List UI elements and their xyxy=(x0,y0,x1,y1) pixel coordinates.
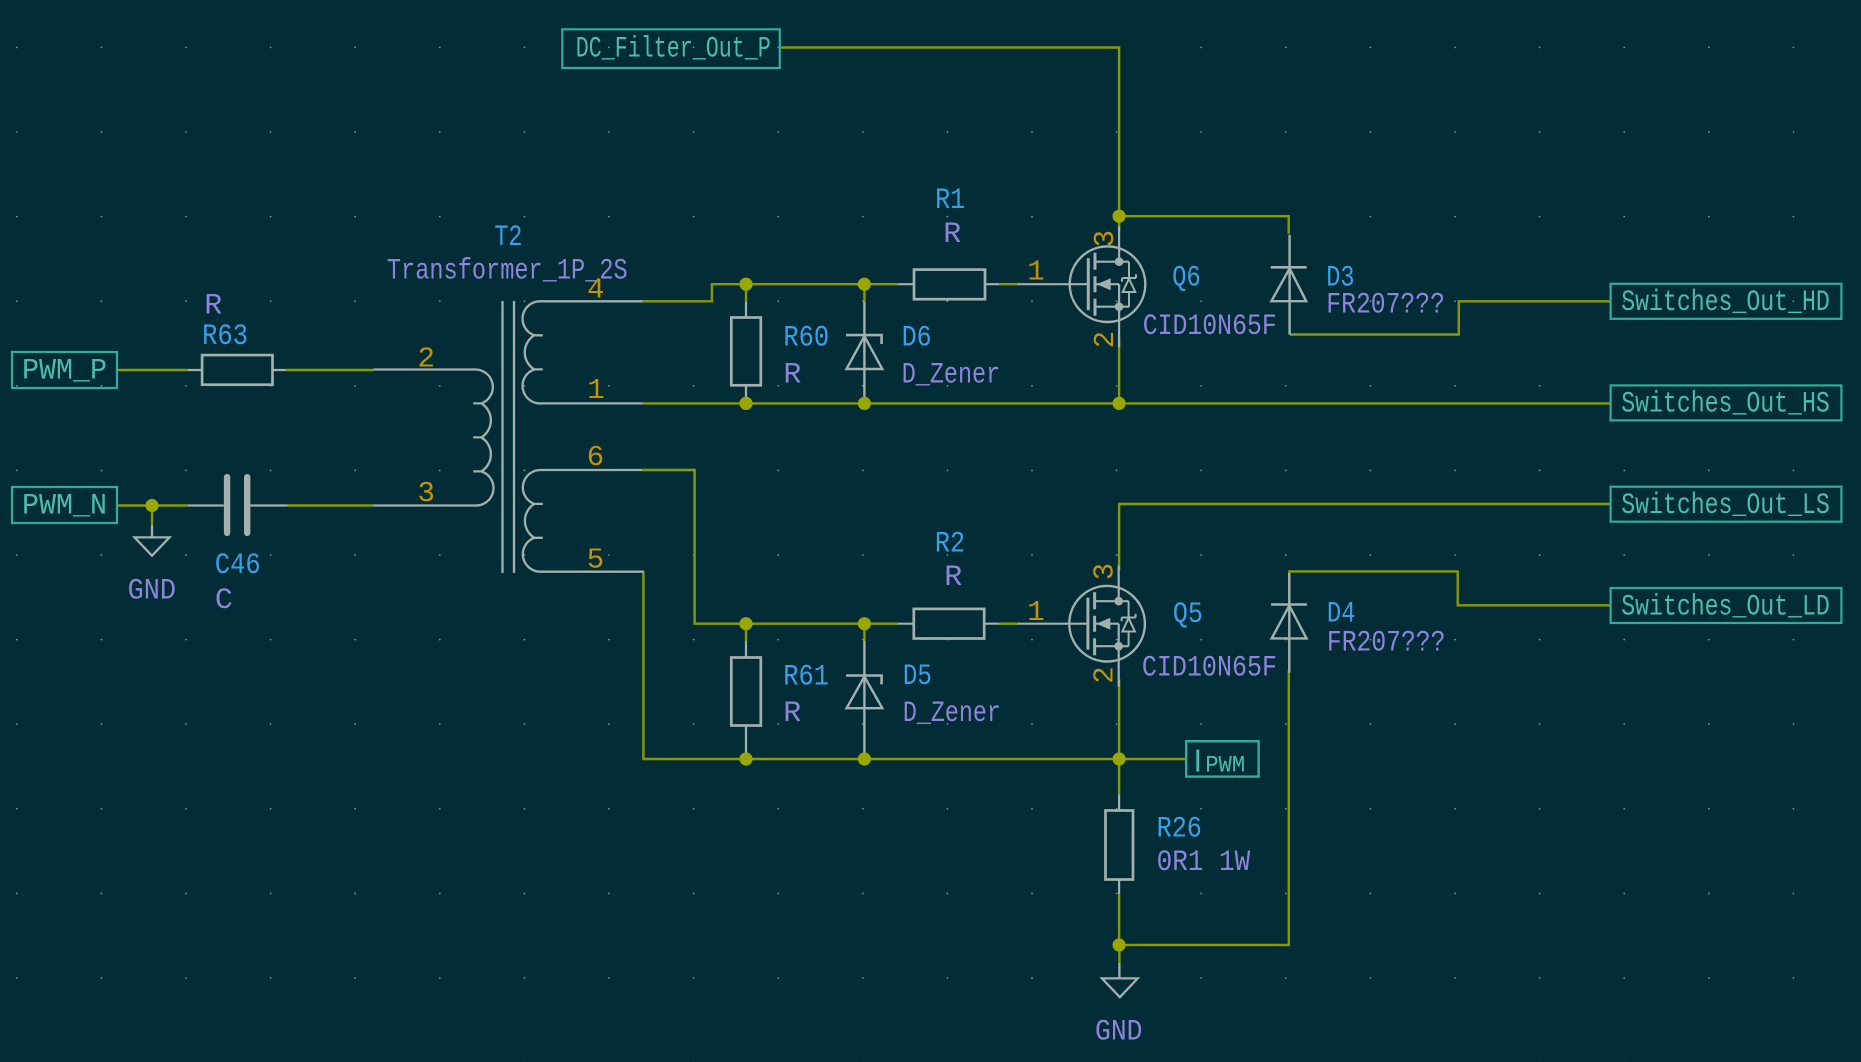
wire Q5 drain to Switches_Out_LS xyxy=(1119,504,1611,570)
svg-text:R61: R61 xyxy=(783,661,829,695)
global label IPWM xyxy=(1186,741,1258,778)
T2 pin 4 number xyxy=(587,274,604,307)
wire T2 pin4 to top node row xyxy=(643,284,898,301)
wire PWM_P to R63 xyxy=(117,369,188,371)
wire GND stub left xyxy=(151,506,153,525)
diode D3 xyxy=(1271,235,1307,335)
svg-text:FR207???: FR207??? xyxy=(1327,626,1446,660)
wire GND stub bottom xyxy=(1118,945,1120,963)
wire T2 pin5 to bottom row and IPWM xyxy=(643,572,1186,759)
Q5 pin 3 number xyxy=(1088,563,1121,580)
svg-text:T2: T2 xyxy=(494,221,522,255)
junction GND node xyxy=(1113,938,1126,951)
svg-text:2: 2 xyxy=(1088,666,1121,683)
svg-text:2: 2 xyxy=(1089,331,1122,348)
junction R60 top xyxy=(739,278,752,291)
GND bottom text xyxy=(1095,1015,1143,1049)
svg-text:R: R xyxy=(204,290,222,324)
junction D5 top xyxy=(858,617,871,630)
svg-text:D6: D6 xyxy=(902,321,932,355)
resistor R60 xyxy=(731,302,761,403)
svg-text:5: 5 xyxy=(587,544,604,577)
Q6 pin 3 number xyxy=(1089,230,1122,247)
zener diode D5 xyxy=(846,641,883,759)
hierarchical label PWM_N xyxy=(12,487,117,524)
C46 reference xyxy=(215,549,261,583)
wire D4 cathode to Switches_Out_LD xyxy=(1289,571,1610,605)
svg-text:3: 3 xyxy=(1088,563,1121,580)
transformer T2 xyxy=(374,301,643,573)
junction R60 bottom xyxy=(739,397,752,410)
R61 reference xyxy=(783,661,829,695)
wire C46 to T2 pin3 xyxy=(288,504,374,506)
resistor R2 xyxy=(898,609,999,639)
hierarchical label Switches_Out_HD xyxy=(1611,284,1842,320)
svg-text:R63: R63 xyxy=(202,320,248,354)
transistor Q6 xyxy=(1018,226,1146,347)
R63 reference xyxy=(202,320,248,354)
resistor R61 xyxy=(731,641,761,759)
R26 value 0R1 1W xyxy=(1157,846,1251,880)
R60 value R xyxy=(783,358,801,392)
wire R60 top stub xyxy=(745,284,747,302)
junction D6 bottom xyxy=(858,397,871,410)
R63 value R xyxy=(204,290,222,324)
Q5 value CID10N65F xyxy=(1142,652,1277,686)
svg-text:R: R xyxy=(944,561,962,595)
hierarchical label DC_Filter_Out_P xyxy=(562,29,780,68)
Q6 reference xyxy=(1172,261,1200,295)
wire drain node to D3 cathode xyxy=(1119,216,1289,234)
T2 reference xyxy=(494,221,522,255)
svg-text:Q6: Q6 xyxy=(1172,261,1200,295)
wire R63 to T2 pin2 xyxy=(286,369,374,371)
wire T2 pin6 to lower node row xyxy=(642,470,898,624)
wire D3 anode to Switches_Out_HD xyxy=(1290,301,1611,334)
D5 value D_Zener xyxy=(903,697,1001,731)
svg-text:4: 4 xyxy=(587,274,604,307)
R60 reference xyxy=(783,321,829,355)
junction PWM_N node xyxy=(145,499,158,512)
R1 reference xyxy=(935,184,965,218)
svg-text:PWM_N: PWM_N xyxy=(22,490,107,524)
junction R61 bottom xyxy=(739,752,752,765)
Q5 pin 2 number xyxy=(1088,666,1121,683)
svg-text:D_Zener: D_Zener xyxy=(903,697,1001,731)
svg-text:GND: GND xyxy=(128,575,176,609)
svg-text:Switches_Out_LD: Switches_Out_LD xyxy=(1621,590,1830,624)
junction D6 top xyxy=(858,278,871,291)
svg-text:R: R xyxy=(783,358,801,392)
svg-text:C: C xyxy=(215,584,233,618)
wire R26 to GND node xyxy=(1118,894,1120,945)
wire GND row to D4 anode xyxy=(1119,670,1289,945)
svg-text:D5: D5 xyxy=(903,660,932,694)
svg-text:3: 3 xyxy=(418,477,435,510)
T2 pin 6 number xyxy=(587,441,604,474)
wire bottom row to R26 xyxy=(1118,759,1120,794)
svg-text:DC_Filter_Out_P: DC_Filter_Out_P xyxy=(576,33,771,67)
svg-text:3: 3 xyxy=(1089,230,1122,247)
junction R61 top xyxy=(739,617,752,630)
wire Q5 source to bottom row xyxy=(1118,679,1120,759)
transistor Q5 xyxy=(1017,566,1144,687)
wire R1 to Q6 gate xyxy=(999,283,1019,285)
R61 value R xyxy=(783,697,801,731)
T2 pin 5 number xyxy=(587,544,604,577)
T2 pin 2 number xyxy=(418,343,435,376)
wire D6 top stub xyxy=(863,284,865,302)
svg-text:GND: GND xyxy=(1095,1015,1143,1049)
svg-text:6: 6 xyxy=(587,441,604,474)
svg-text:PWM: PWM xyxy=(1205,753,1245,779)
svg-text:R2: R2 xyxy=(935,527,965,561)
svg-text:FR207???: FR207??? xyxy=(1326,288,1445,322)
Q6 value CID10N65F xyxy=(1143,310,1277,344)
svg-text:R26: R26 xyxy=(1157,812,1202,846)
hierarchical label Switches_Out_LD xyxy=(1611,588,1842,624)
T2 pin 3 number xyxy=(418,477,435,510)
ground symbol GND bottom xyxy=(1102,963,1138,997)
svg-text:0R1 1W: 0R1 1W xyxy=(1157,846,1251,880)
zener diode D6 xyxy=(846,302,883,403)
svg-text:R: R xyxy=(943,218,961,252)
Q5 reference xyxy=(1173,598,1203,632)
svg-text:CID10N65F: CID10N65F xyxy=(1143,310,1277,344)
svg-text:D_Zener: D_Zener xyxy=(902,358,1001,392)
wire D5 top stub xyxy=(863,624,865,641)
svg-text:PWM_P: PWM_P xyxy=(22,355,107,389)
svg-text:R1: R1 xyxy=(935,184,965,218)
R2 value R xyxy=(944,561,962,595)
resistor R63 xyxy=(188,355,286,385)
junction Q6 drain node xyxy=(1113,210,1126,223)
wire PWM_N to C46 xyxy=(117,504,188,506)
hierarchical label Switches_Out_HS xyxy=(1611,385,1842,421)
capacitor C46 xyxy=(188,474,287,536)
wire R61 top stub xyxy=(745,624,747,641)
T2 value Transformer_1P_2S xyxy=(387,255,628,289)
resistor R26 xyxy=(1106,794,1134,894)
svg-text:C46: C46 xyxy=(215,549,261,583)
D4 value FR207??? xyxy=(1327,626,1446,660)
svg-text:R: R xyxy=(783,697,801,731)
R26 reference xyxy=(1157,812,1202,846)
wire DC_Filter_Out_P net xyxy=(780,48,1119,231)
wire R2 to Q5 gate xyxy=(999,623,1019,625)
D6 value D_Zener xyxy=(902,358,1001,392)
svg-text:1: 1 xyxy=(587,374,604,407)
svg-text:Q5: Q5 xyxy=(1173,598,1203,632)
Q5 pin 1 number xyxy=(1027,596,1044,629)
hierarchical label PWM_P xyxy=(12,352,117,389)
svg-text:CID10N65F: CID10N65F xyxy=(1142,652,1277,686)
junction Q5 source node xyxy=(1113,752,1126,765)
diode D4 xyxy=(1271,573,1307,673)
ground symbol GND left xyxy=(135,525,170,556)
R1 value R xyxy=(943,218,961,252)
GND left text xyxy=(128,575,176,609)
D3 reference xyxy=(1326,261,1354,295)
D3 value FR207??? xyxy=(1326,288,1445,322)
svg-text:Switches_Out_HS: Switches_Out_HS xyxy=(1621,388,1830,422)
wire Q6 source to HS row xyxy=(1118,338,1120,403)
svg-text:Switches_Out_HD: Switches_Out_HD xyxy=(1621,286,1830,320)
junction D5 bottom xyxy=(858,752,871,765)
svg-text:Switches_Out_LS: Switches_Out_LS xyxy=(1621,489,1830,523)
svg-text:2: 2 xyxy=(418,343,435,376)
wire Switches_Out_HS row xyxy=(643,402,1611,404)
svg-text:R60: R60 xyxy=(783,321,829,355)
hierarchical label Switches_Out_LS xyxy=(1611,487,1842,523)
resistor R1 xyxy=(898,270,999,300)
Q6 pin 2 number xyxy=(1089,331,1122,348)
T2 pin 1 number xyxy=(587,374,604,407)
D4 reference xyxy=(1327,598,1356,632)
D6 reference xyxy=(902,321,932,355)
junction Q6 source node xyxy=(1113,397,1126,410)
C46 value C xyxy=(215,584,233,618)
D5 reference xyxy=(903,660,932,694)
R2 reference xyxy=(935,527,965,561)
Q6 pin 1 number xyxy=(1027,256,1044,289)
